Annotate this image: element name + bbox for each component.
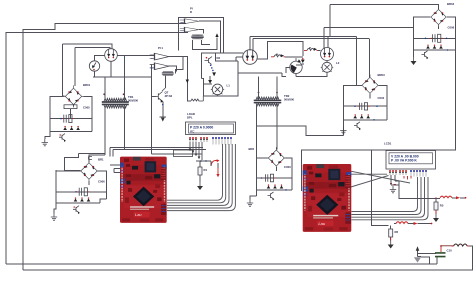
ground [51,214,57,221]
transistor Q2 [205,57,213,65]
wire TR2 primary [259,77,278,99]
svg-text:PI 1: PI 1 [158,46,163,50]
diode row [414,49,456,51]
diode row [257,189,292,191]
wire U1 out right [199,21,243,53]
wire left drop to bridge [63,44,65,96]
pin header group red [389,171,397,175]
wire U2 out to T3 [199,30,203,34]
wire pin sub box [391,175,399,185]
probe arrow [215,33,218,37]
wire elbow loop [418,254,430,264]
ground [42,139,48,146]
wire rail drops to Q3 [324,37,328,49]
microcontroller board U5 LaunchPad 1 [120,157,167,223]
svg-text:BR2: BR2 [249,147,255,151]
wire board1 left feeds [97,155,120,165]
wire gnd elbow [54,203,56,214]
svg-text:BR01: BR01 [83,83,91,87]
wire BR2 box [257,158,292,178]
svg-text:C003: C003 [284,165,291,169]
pin header group red [189,138,197,142]
wire U3 out to loop [168,57,191,101]
ground [247,200,253,207]
svg-text:BR1: BR1 [98,158,104,162]
capacitor stack C10 [435,253,446,257]
wire loop to source [63,44,113,49]
wire gnd elbow [45,131,50,139]
resistor R1 vertical [198,167,202,175]
wire riser from bottom rail [436,257,438,264]
wire to diode row [257,178,292,190]
capacitor row [343,105,387,107]
ammeter A1 [89,61,99,71]
wire T3 loop [192,38,217,50]
svg-text:D2: D2 [217,56,221,60]
down arrow probe [212,72,216,76]
op-amp U1 [180,19,204,24]
wire pin drops [190,142,202,160]
wire top feed left [65,154,81,171]
bridge BR04 [428,7,449,28]
wire to diode row [414,38,456,50]
svg-text:LCD1: LCD1 [384,142,392,146]
pin header group dark [200,138,208,142]
wire gnd elbow [250,196,257,200]
wire bridge box [50,96,92,131]
wire top link [441,245,454,247]
diode D5 [301,60,305,63]
transformer T4 [162,71,174,76]
svg-text:AC: AC [190,130,195,134]
pin header group dark [399,171,407,175]
svg-text:C10: C10 [447,249,453,253]
wire box around PI [179,18,224,53]
transistor glyph TQ2 [73,206,79,213]
ground [388,241,394,249]
ground [197,182,203,190]
microcontroller board U6 LaunchPad 2 [303,164,352,232]
ground [390,186,396,193]
blue dot trail [210,65,212,67]
wire T4 secondary [164,75,166,88]
capacitor row [257,177,292,179]
wire rails top [250,37,369,39]
lamp box [202,61,239,96]
wire res to diode [285,56,303,58]
bridge BR01 [62,85,84,107]
wire Q1 left [236,57,243,61]
wire inner drop to bridge top [74,47,76,86]
wire Q1 collector loop [257,42,303,59]
wire link to BR03 rail [257,126,344,135]
wire diagonals board2 to lcd pins [351,171,410,187]
svg-text:P .00 VA P.000 K: P .00 VA P.000 K [391,158,417,162]
svg-text:R6: R6 [395,230,399,234]
ground [411,57,417,65]
svg-text:BR03: BR03 [378,73,386,77]
svg-text:500/500: 500/500 [128,98,139,102]
svg-text:C006: C006 [98,180,105,184]
wire Q2 box [202,53,239,78]
wire top feed to bridge top [89,155,104,163]
wire right side long drop [302,18,456,192]
wire bottom rail 2 [23,247,472,270]
diode row D1-D3 [50,130,92,132]
wire feedback loop inner [23,24,186,271]
svg-text:R5: R5 [440,204,444,208]
bridge BR03 [359,75,381,97]
transformer TR2 [254,97,282,106]
svg-text:500/500: 500/500 [284,97,295,101]
transistor Q3 [321,48,334,61]
svg-text:C004: C004 [378,96,385,100]
resistor R6 vertical [389,229,393,237]
op-amp U4 [150,63,174,70]
wire gnd stub [413,50,415,57]
pin stubs red [404,176,411,180]
wire source to meter box [95,61,112,77]
wire board1 left pins [114,169,120,173]
ground triangle [414,257,421,262]
wire top feeds [330,5,439,37]
wire probe wiring [196,161,211,167]
wire BR4 box [414,17,456,38]
svg-text:DPL: DPL [187,115,193,119]
resistor bump [191,96,203,101]
transistor glyph TQ3 [354,122,360,129]
ground [433,214,439,222]
svg-text:C006: C006 [448,26,455,30]
wire Q3 to L2 [326,61,328,63]
transistor glyph TQ4 [422,51,428,58]
wire bundle display1 to board1 [167,144,235,211]
inductor L5 [454,244,468,246]
bridge BR1 [78,160,100,182]
svg-text:L1: L1 [227,84,231,88]
wire to ground [199,175,201,182]
diode row [56,202,100,204]
wire feedback loop outer [6,33,188,264]
transistor glyph TQ1 [59,134,65,141]
probe arrow on drop [186,80,189,84]
wire TR1 secondary down [79,107,207,157]
pin header group blue [410,170,427,172]
wire QT base from left [152,95,156,97]
transformer TR1 [102,98,129,108]
transistor QT [152,92,163,102]
wire branch to R ground [372,150,389,226]
wire TR1 primary [105,55,125,99]
op-amp U2 [180,27,204,32]
down arrow 2 [208,80,212,84]
wire BR3 box [343,85,387,106]
wire caps to diodes [50,119,92,132]
gnd arrow below QT [161,118,165,122]
inductor L4 red [440,196,452,198]
wire R3 to Q3 [318,49,321,51]
sensor block K1 [174,150,193,157]
transformer T3 [191,34,204,39]
svg-text:L2: L2 [336,61,340,65]
resistor R5 vertical [434,202,438,210]
wire QT emitter down [160,102,166,118]
voltage probe arrow up [418,251,437,254]
diode row [343,119,387,121]
terminal dashes [89,157,93,160]
junction [435,197,437,199]
source V1 [105,49,118,62]
wire feed 2 [324,28,414,39]
wire gnd stub [342,120,344,136]
op-amp U3 [150,53,174,60]
wire U4 out to T4 [168,66,177,71]
lamp FL1 [290,61,302,73]
wire loop inner [75,47,110,48]
wire rail drops to Q1 [250,37,253,51]
block component box [64,105,77,109]
wire to diode row [56,192,107,203]
svg-text:D: D [190,10,192,14]
wire lcd gnd chain [399,185,436,198]
capacitor row [414,37,456,39]
lamp L2 [321,62,334,74]
capacitor row [56,191,107,193]
inductor L3 red [396,222,408,224]
pin header group blue [212,137,232,139]
junction dots [200,160,202,162]
wire TR2 secondary to BR2 [257,104,278,196]
lamp L1 [211,84,224,96]
wire bridge box 2 [56,170,107,192]
transistor glyph TQ5 [268,192,274,199]
wire input loop lower [93,65,202,154]
wire bundle board2 to display2 [352,177,429,220]
svg-text:4P NJ: 4P NJ [165,94,173,98]
wire input from source [95,55,155,61]
wire TR1 sec 2 [124,147,126,149]
red arrow probe down [217,168,219,175]
current probe red arc [211,161,218,166]
resistor R2 [271,54,285,58]
ground [340,127,346,134]
svg-text:C005: C005 [83,105,90,109]
svg-text:R1: R1 [204,168,208,172]
transistor Q1 [243,50,258,65]
wire rails into BR3 [356,37,369,86]
wire bottom rail 1 [6,263,437,265]
resistor R3 [304,47,318,51]
wire lamp2 wiring [286,63,303,77]
wire to diode row [343,106,387,120]
capacitor row C1 C2 [50,118,92,120]
wire L2 bottom jog [238,73,327,77]
svg-text:BR04: BR04 [447,2,455,6]
bridge BR2 [266,147,288,169]
